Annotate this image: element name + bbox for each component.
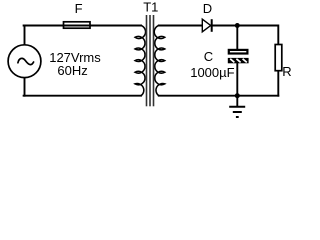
wire diode to right corner (212, 26, 279, 45)
fuse F (64, 22, 91, 28)
capacitor C plates (228, 50, 249, 63)
wire left vertical top (24, 26, 26, 46)
svg-text:60Hz: 60Hz (57, 63, 87, 78)
svg-text:C: C (204, 49, 213, 64)
wire bottom secondary (159, 95, 278, 97)
ground (229, 107, 245, 117)
svg-text:R: R (282, 64, 291, 79)
transformer T1 primary winding (135, 26, 146, 96)
diode D (202, 19, 211, 32)
wire bottom primary (24, 95, 141, 97)
wire left vertical bottom (24, 77, 26, 95)
junction node bottom (235, 93, 240, 98)
svg-text:T1: T1 (143, 0, 158, 14)
transformer T1 secondary winding (154, 26, 165, 96)
wire capacitor top lead (236, 26, 238, 49)
wire top secondary (159, 25, 203, 27)
svg-text:1000µF: 1000µF (190, 65, 234, 80)
wire top primary (24, 25, 141, 27)
resistor R (275, 45, 282, 71)
svg-text:D: D (203, 1, 212, 16)
wire capacitor bottom lead (236, 63, 238, 95)
AC source V1 (8, 45, 41, 78)
svg-text:F: F (75, 1, 83, 16)
junction node top (235, 23, 240, 28)
transformer T1 core (147, 15, 154, 106)
wire resistor bottom (277, 71, 279, 96)
wire ground stub (236, 96, 238, 106)
